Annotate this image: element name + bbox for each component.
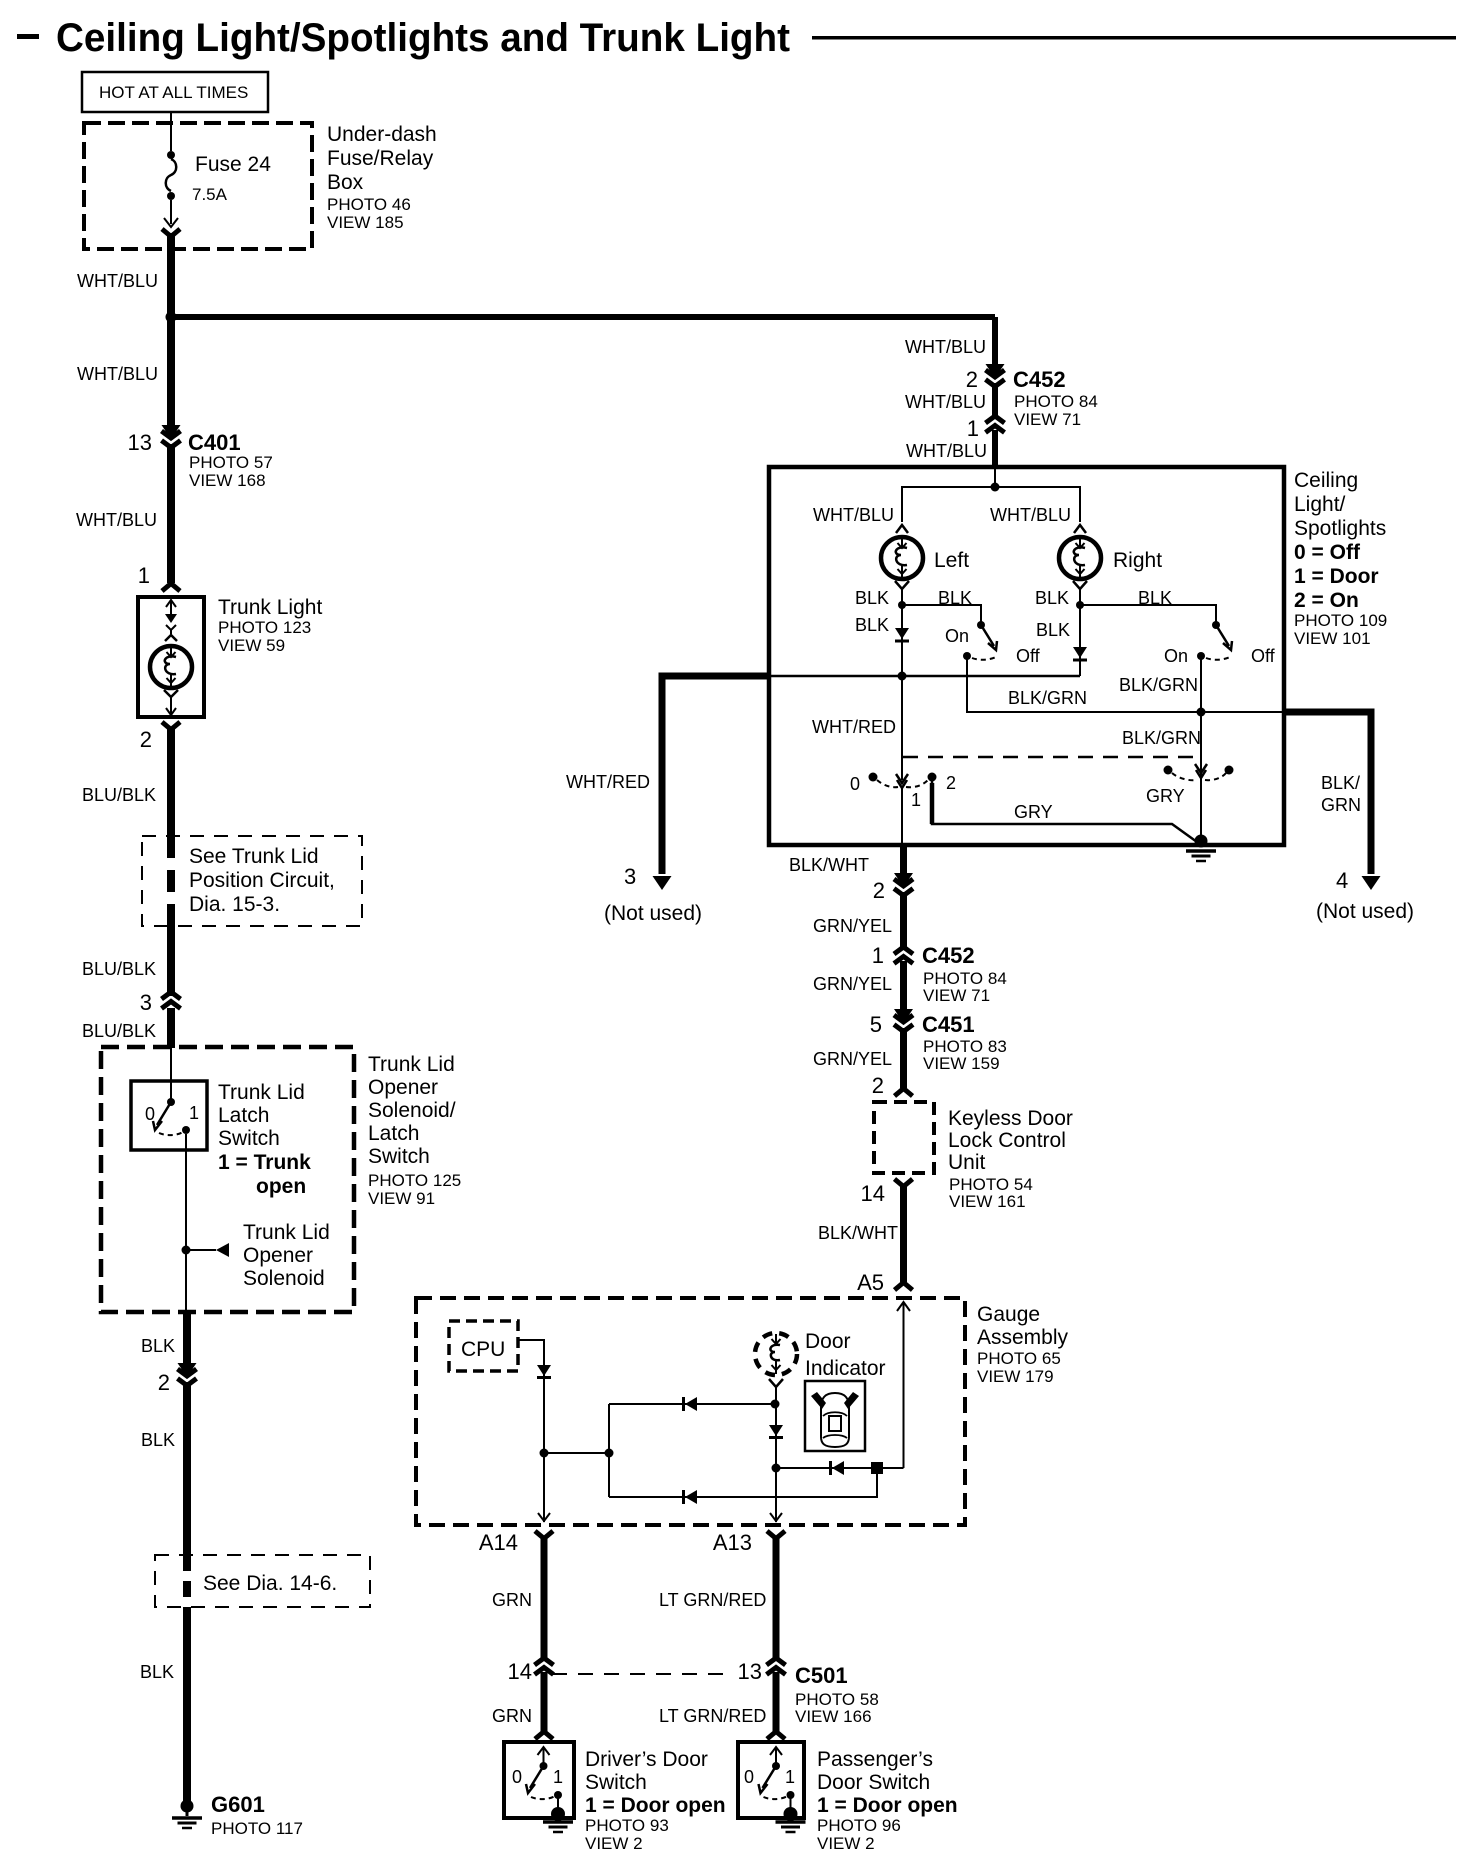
svg-text:PHOTO 96: PHOTO 96 xyxy=(817,1816,901,1835)
svg-text:Off: Off xyxy=(1251,646,1276,666)
right switch pivot xyxy=(1197,652,1205,660)
svg-text:13: 13 xyxy=(128,430,152,455)
fuse value label xyxy=(192,153,271,204)
node diode to rail xyxy=(898,672,907,681)
connector C501 chevron up (passenger side) xyxy=(767,1658,786,1675)
svg-text:Box: Box xyxy=(327,171,364,194)
wire BLU/BLK into solenoid box xyxy=(167,1008,175,1048)
connector chevron up xyxy=(986,416,1005,433)
trunk lid opener solenoid/latch switch box (dashed) xyxy=(101,1047,354,1312)
door indicator label xyxy=(805,1330,886,1380)
connector chevron down xyxy=(894,873,913,896)
HOT AT ALL TIMES box xyxy=(82,72,268,112)
connector C452 label xyxy=(1013,367,1098,429)
svg-text:WHT/BLU: WHT/BLU xyxy=(905,392,986,412)
door indicator lamp (dashed circle) xyxy=(755,1333,797,1375)
diode CPU branch xyxy=(537,1365,551,1378)
wire GRN/YEL to keyless unit xyxy=(900,1028,907,1088)
trunk light outlet chevron xyxy=(162,722,180,730)
connector chevron at fuse box outlet xyxy=(162,229,180,237)
wire right pivot down xyxy=(1200,658,1202,712)
CPU box (dashed) xyxy=(449,1321,518,1371)
passenger switch ground xyxy=(776,1807,806,1832)
solenoid box label xyxy=(368,1053,461,1208)
left ceiling lamp xyxy=(881,537,923,579)
svg-text:Keyless Door: Keyless Door xyxy=(948,1107,1073,1130)
svg-text:Spotlights: Spotlights xyxy=(1294,517,1386,540)
passenger switch position labels xyxy=(744,1767,795,1787)
svg-text:WHT/BLU: WHT/BLU xyxy=(990,505,1071,525)
svg-text:Unit: Unit xyxy=(948,1151,986,1174)
node indicator lower xyxy=(772,1464,781,1473)
svg-text:5: 5 xyxy=(870,1012,882,1037)
svg-text:GRN: GRN xyxy=(1321,795,1361,815)
svg-text:(Not used): (Not used) xyxy=(604,902,702,925)
connector C501 chevron up (driver side) xyxy=(535,1658,554,1675)
A14 exit arrow xyxy=(538,1513,550,1521)
connector C451 label xyxy=(922,1012,1007,1073)
svg-text:0: 0 xyxy=(145,1104,155,1124)
under-dash fuse/relay box (dashed) xyxy=(84,123,312,249)
trunk light bulb xyxy=(150,646,192,688)
connector C452 lower chevron up xyxy=(894,947,913,964)
svg-text:Trunk Lid: Trunk Lid xyxy=(218,1081,305,1104)
svg-text:VIEW 59: VIEW 59 xyxy=(218,636,285,655)
gauge assembly box (dashed) xyxy=(416,1298,965,1525)
wire top diode branch xyxy=(609,1403,775,1405)
svg-text:Door: Door xyxy=(805,1330,851,1353)
svg-text:VIEW 159: VIEW 159 xyxy=(923,1054,1000,1073)
driver's door switch box xyxy=(504,1742,574,1818)
svg-text:VIEW 2: VIEW 2 xyxy=(585,1834,643,1853)
trunk light bottom chevron and arrow xyxy=(164,690,178,715)
svg-text:VIEW 2: VIEW 2 xyxy=(817,1834,875,1853)
ground label G601 xyxy=(211,1792,303,1838)
ceiling light/spotlights box xyxy=(769,467,1284,845)
wire LT GRN/RED down from A13 xyxy=(773,1536,780,1658)
svg-text:LT GRN/RED: LT GRN/RED xyxy=(659,1706,766,1726)
wire GRY from contact 2 xyxy=(932,781,1197,842)
keyless door lock control unit box (dashed) xyxy=(874,1102,934,1173)
trunk light label xyxy=(218,596,322,655)
trunk light box xyxy=(138,597,204,717)
svg-text:1: 1 xyxy=(785,1767,795,1787)
svg-text:Left: Left xyxy=(934,549,969,572)
svg-text:C401: C401 xyxy=(188,430,241,455)
car indicator icon box xyxy=(805,1381,865,1451)
svg-text:BLK: BLK xyxy=(140,1662,174,1682)
svg-text:Switch: Switch xyxy=(368,1145,430,1168)
svg-text:Trunk Lid: Trunk Lid xyxy=(368,1053,455,1076)
label BLK/GRN two lines xyxy=(1321,773,1361,815)
note text xyxy=(189,845,335,916)
keyless unit wire end chevron xyxy=(895,1089,913,1097)
svg-text:1: 1 xyxy=(967,416,979,441)
wire CPU to A14 branch xyxy=(518,1340,544,1522)
wire A5 internal vertical xyxy=(903,1303,905,1468)
svg-text:Fuse/Relay: Fuse/Relay xyxy=(327,147,434,170)
diode top branch xyxy=(684,1397,698,1411)
svg-text:G601: G601 xyxy=(211,1792,265,1817)
svg-text:BLU/BLK: BLU/BLK xyxy=(82,785,156,805)
wire into latch switch xyxy=(170,1047,172,1081)
node indicator top xyxy=(771,1400,780,1409)
A5 entry arrow inside gauge box xyxy=(897,1302,910,1311)
svg-text:PHOTO 117: PHOTO 117 xyxy=(211,1819,303,1838)
ground G601 xyxy=(172,1800,202,1829)
node square junction xyxy=(871,1462,883,1474)
wire WHT/BLU down to C401 xyxy=(167,317,175,433)
svg-text:PHOTO 93: PHOTO 93 xyxy=(585,1816,669,1835)
wire BLK to see-dia box xyxy=(183,1382,191,1555)
svg-text:WHT/BLU: WHT/BLU xyxy=(813,505,894,525)
driver switch ground xyxy=(543,1807,573,1832)
svg-text:0: 0 xyxy=(744,1767,754,1787)
svg-text:BLK/GRN: BLK/GRN xyxy=(1119,675,1198,695)
svg-text:C452: C452 xyxy=(922,943,975,968)
svg-text:Solenoid/: Solenoid/ xyxy=(368,1099,456,1122)
driver switch wire end chevron xyxy=(535,1732,553,1740)
wire main feed horizontal to right branch xyxy=(171,314,995,320)
svg-text:BLK/: BLK/ xyxy=(1321,773,1360,793)
svg-text:WHT/BLU: WHT/BLU xyxy=(77,271,158,291)
svg-text:7.5A: 7.5A xyxy=(192,185,228,204)
svg-text:Fuse 24: Fuse 24 xyxy=(195,153,271,176)
trunk light internal circuit xyxy=(165,600,177,641)
node below right lamp xyxy=(1076,601,1084,609)
diode right lamp xyxy=(1073,647,1087,660)
wire BLK below solenoid box xyxy=(183,1312,191,1370)
gauge wire end chevron A5 xyxy=(895,1283,913,1291)
svg-text:Indicator: Indicator xyxy=(805,1357,886,1380)
wire cross link xyxy=(544,1452,609,1454)
A14 outlet chevron xyxy=(535,1531,553,1539)
wire middle vertical xyxy=(608,1404,610,1497)
left lamp bottom chevron xyxy=(895,581,909,605)
right lamp diode branch xyxy=(1079,605,1081,676)
node BLK/GRN junction xyxy=(1197,708,1206,717)
svg-text:Ceiling Light/Spotlights and T: Ceiling Light/Spotlights and Trunk Light xyxy=(56,16,790,60)
wire WHT/BLU between C452 halves xyxy=(992,383,998,419)
svg-text:BLU/BLK: BLU/BLK xyxy=(82,1021,156,1041)
svg-text:A13: A13 xyxy=(713,1530,752,1555)
A13 exit arrow xyxy=(770,1513,782,1521)
left selector wire with arrow xyxy=(896,676,908,788)
passenger switch internals xyxy=(759,1747,795,1812)
left switch dashed throw xyxy=(972,656,998,660)
wire GRN/YEL to C452 xyxy=(900,892,907,947)
keyless unit label xyxy=(948,1107,1073,1211)
svg-text:0: 0 xyxy=(850,774,860,794)
svg-text:Opener: Opener xyxy=(243,1244,313,1267)
svg-text:1: 1 xyxy=(138,563,150,588)
svg-text:3: 3 xyxy=(140,990,152,1015)
door indicator bottom chevron xyxy=(769,1379,783,1387)
connector chevron pair down xyxy=(178,1363,197,1386)
svg-text:4: 4 xyxy=(1336,868,1348,893)
svg-text:PHOTO 109: PHOTO 109 xyxy=(1294,611,1387,630)
svg-text:HOT AT ALL TIMES: HOT AT ALL TIMES xyxy=(99,83,248,102)
svg-text:VIEW 168: VIEW 168 xyxy=(189,471,266,490)
wire BLK to G601 xyxy=(183,1607,191,1803)
driver switch internals xyxy=(526,1747,562,1812)
svg-text:13: 13 xyxy=(738,1659,762,1684)
svg-text:1 = Trunk: 1 = Trunk xyxy=(218,1151,311,1174)
svg-text:WHT/RED: WHT/RED xyxy=(566,772,650,792)
connector C452 chevron pair (C401) xyxy=(162,425,181,448)
wire GRN to driver switch xyxy=(541,1672,548,1732)
svg-text:Driver’s Door: Driver’s Door xyxy=(585,1748,708,1771)
svg-text:Latch: Latch xyxy=(368,1122,419,1145)
svg-text:LT GRN/RED: LT GRN/RED xyxy=(659,1590,766,1610)
wire lamp feed rail xyxy=(902,487,1080,522)
latch switch position labels xyxy=(145,1103,199,1124)
svg-text:BLU/BLK: BLU/BLK xyxy=(82,959,156,979)
connector C401 label xyxy=(188,430,273,490)
wire entry into box xyxy=(994,467,996,487)
wire selector center to box bottom xyxy=(901,788,903,845)
right selector wire with arrow xyxy=(1195,712,1207,843)
driver switch label xyxy=(585,1748,726,1853)
latch switch internals xyxy=(153,1081,190,1135)
svg-text:Passenger’s: Passenger’s xyxy=(817,1748,933,1771)
right switch dashed throw xyxy=(1206,656,1232,660)
left selector dashed arcs xyxy=(877,780,928,787)
wire bottom diode branch xyxy=(609,1468,877,1497)
diode indicator branch xyxy=(769,1425,783,1438)
svg-text:PHOTO 84: PHOTO 84 xyxy=(1014,392,1098,411)
svg-text:BLK/GRN: BLK/GRN xyxy=(1122,728,1201,748)
wire BLK/WHT keyless to gauge xyxy=(900,1184,907,1282)
left switch contact xyxy=(977,621,985,629)
wire contact2 vertical thick part xyxy=(930,783,935,824)
label BLK x4 xyxy=(855,588,1172,608)
svg-text:Right: Right xyxy=(1113,549,1162,572)
wire GRN down from A14 xyxy=(541,1536,548,1658)
svg-text:Off: Off xyxy=(1016,646,1041,666)
svg-text:1 = Door: 1 = Door xyxy=(1294,565,1379,588)
wire to left On/Off switch xyxy=(902,605,981,622)
svg-text:BLK/WHT: BLK/WHT xyxy=(818,1223,898,1243)
svg-text:VIEW 185: VIEW 185 xyxy=(327,213,404,232)
svg-text:2: 2 xyxy=(873,878,885,903)
svg-text:On: On xyxy=(1164,646,1188,666)
right lamp wire end chevron xyxy=(1074,525,1086,533)
svg-text:PHOTO 65: PHOTO 65 xyxy=(977,1349,1061,1368)
svg-text:GRY: GRY xyxy=(1146,786,1185,806)
left lamp diode branch xyxy=(901,605,903,676)
svg-text:C452: C452 xyxy=(1013,367,1066,392)
diode left lamp xyxy=(895,628,909,641)
wire dashed through note box xyxy=(167,836,175,926)
svg-text:GRN/YEL: GRN/YEL xyxy=(813,974,892,994)
A13 outlet chevron xyxy=(767,1531,785,1539)
right switch blade xyxy=(1216,625,1232,650)
passenger switch wire end chevron xyxy=(767,1732,785,1740)
svg-text:1: 1 xyxy=(872,943,884,968)
node link xyxy=(605,1449,614,1458)
node solenoid tap xyxy=(182,1246,191,1255)
right ceiling lamp xyxy=(1059,537,1101,579)
svg-text:Trunk Light: Trunk Light xyxy=(218,596,322,619)
left switch pivot xyxy=(963,652,971,660)
node below left lamp xyxy=(898,601,906,609)
svg-text:VIEW 91: VIEW 91 xyxy=(368,1189,435,1208)
trunk light wire end chevron xyxy=(162,584,180,592)
wire BLU/BLK trunk light down xyxy=(167,727,175,837)
right selector contact right xyxy=(1225,766,1234,775)
svg-text:C501: C501 xyxy=(795,1663,848,1688)
svg-text:1: 1 xyxy=(911,790,921,810)
svg-text:2: 2 xyxy=(158,1370,170,1395)
svg-text:GRN/YEL: GRN/YEL xyxy=(813,1049,892,1069)
svg-text:VIEW 71: VIEW 71 xyxy=(1014,410,1081,429)
svg-text:BLK/GRN: BLK/GRN xyxy=(1008,688,1087,708)
solenoid tap stub with arrow xyxy=(186,1243,229,1257)
svg-text:GRY: GRY xyxy=(1014,802,1053,822)
svg-text:open: open xyxy=(256,1175,306,1198)
right selector contact left xyxy=(1164,766,1173,775)
mechanical link dashed line xyxy=(903,756,1198,759)
gauge assembly label xyxy=(977,1303,1069,1386)
svg-text:Lock Control: Lock Control xyxy=(948,1129,1066,1152)
svg-text:PHOTO 125: PHOTO 125 xyxy=(368,1171,461,1190)
left selector contact 2 xyxy=(928,773,937,782)
fuse F24 symbol xyxy=(164,112,178,227)
diode middle branch xyxy=(831,1461,845,1475)
see dia 14-6 box (dashed) xyxy=(155,1555,370,1607)
svg-text:1: 1 xyxy=(189,1103,199,1123)
svg-text:See Dia. 14-6.: See Dia. 14-6. xyxy=(203,1572,337,1595)
svg-text:Dia. 15-3.: Dia. 15-3. xyxy=(189,893,280,916)
wire pivot to BLK/GRN rail xyxy=(967,658,1282,712)
wire dashed through see-dia box xyxy=(183,1555,191,1607)
left lamp wire end chevron xyxy=(896,525,908,533)
svg-text:14: 14 xyxy=(508,1659,532,1684)
svg-text:VIEW 161: VIEW 161 xyxy=(949,1192,1026,1211)
passenger's door switch box xyxy=(738,1742,804,1818)
trunk lid opener solenoid label xyxy=(243,1221,330,1290)
svg-text:On: On xyxy=(945,626,969,646)
svg-text:A5: A5 xyxy=(857,1270,884,1295)
driver switch position labels xyxy=(512,1767,563,1787)
svg-text:GRN: GRN xyxy=(492,1590,532,1610)
svg-text:Opener: Opener xyxy=(368,1076,438,1099)
svg-text:VIEW 179: VIEW 179 xyxy=(977,1367,1054,1386)
diode bottom branch xyxy=(684,1490,698,1504)
connector C452 chevron down xyxy=(986,364,1005,387)
connector C452 label (lower) xyxy=(922,943,1007,1005)
title dash xyxy=(17,34,39,39)
wire WHT/BLU into ceiling light box xyxy=(992,430,998,467)
wire to right On/Off switch xyxy=(1080,605,1216,622)
svg-text:See Trunk Lid: See Trunk Lid xyxy=(189,845,319,868)
wire WHT/BLU right branch down to C452 xyxy=(992,317,998,372)
svg-text:Assembly: Assembly xyxy=(977,1326,1069,1349)
svg-text:WHT/BLU: WHT/BLU xyxy=(906,441,987,461)
wire latch to solenoid tap xyxy=(185,1134,187,1312)
wire square junction down xyxy=(876,1468,878,1497)
svg-text:VIEW 71: VIEW 71 xyxy=(923,986,990,1005)
latch switch label xyxy=(218,1081,311,1198)
svg-text:2: 2 xyxy=(946,773,956,793)
svg-text:Switch: Switch xyxy=(585,1771,647,1794)
see trunk lid position circuit box (dashed) xyxy=(142,836,362,926)
svg-text:BLK: BLK xyxy=(1036,620,1070,640)
exit wire WHT/RED (3 not used) xyxy=(653,676,770,890)
wire BLU/BLK below note box xyxy=(167,926,175,996)
exit wire BLK/GRN (4 not used) xyxy=(1284,712,1381,890)
keyless outlet chevron xyxy=(895,1179,913,1187)
svg-text:WHT/RED: WHT/RED xyxy=(812,717,896,737)
svg-text:Latch: Latch xyxy=(218,1104,269,1127)
svg-text:0 = Off: 0 = Off xyxy=(1294,541,1361,564)
left selector contact 0 xyxy=(869,773,878,782)
wire WHT/BLU C401 to trunk light xyxy=(167,444,175,583)
svg-text:Trunk Lid: Trunk Lid xyxy=(243,1221,330,1244)
svg-text:Solenoid: Solenoid xyxy=(243,1267,325,1290)
node split to two lamps xyxy=(991,483,1000,492)
trunk lid latch switch box xyxy=(131,1081,207,1150)
svg-text:VIEW 101: VIEW 101 xyxy=(1294,629,1371,648)
svg-text:0: 0 xyxy=(512,1767,522,1787)
node junction at main feed split xyxy=(166,312,177,323)
svg-text:Ceiling: Ceiling xyxy=(1294,469,1358,492)
svg-text:2: 2 xyxy=(966,367,978,392)
svg-text:Position Circuit,: Position Circuit, xyxy=(189,869,335,892)
svg-text:GRN: GRN xyxy=(492,1706,532,1726)
svg-text:Under-dash: Under-dash xyxy=(327,123,437,146)
ground inside ceiling box xyxy=(1186,835,1216,862)
svg-text:WHT/BLU: WHT/BLU xyxy=(905,337,986,357)
svg-text:BLK: BLK xyxy=(855,588,889,608)
svg-text:PHOTO 46: PHOTO 46 xyxy=(327,195,411,214)
wire WHT/BLU from fuse box down xyxy=(167,233,175,319)
ceiling light label xyxy=(1294,469,1387,648)
svg-text:2: 2 xyxy=(140,727,152,752)
svg-text:1 = Door open: 1 = Door open xyxy=(585,1794,726,1817)
svg-text:14: 14 xyxy=(861,1181,885,1206)
WHT/RED rail inside box xyxy=(771,675,1080,678)
svg-text:(Not used): (Not used) xyxy=(1316,900,1414,923)
wire indicator vertical xyxy=(775,1387,777,1522)
svg-text:VIEW 166: VIEW 166 xyxy=(795,1707,872,1726)
svg-text:BLK: BLK xyxy=(141,1336,175,1356)
svg-text:Switch: Switch xyxy=(218,1127,280,1150)
svg-text:C451: C451 xyxy=(922,1012,975,1037)
svg-text:CPU: CPU xyxy=(461,1338,505,1361)
svg-text:WHT/BLU: WHT/BLU xyxy=(77,364,158,384)
svg-text:PHOTO 123: PHOTO 123 xyxy=(218,618,311,637)
svg-text:BLK/WHT: BLK/WHT xyxy=(789,855,869,875)
svg-text:2: 2 xyxy=(872,1073,884,1098)
right switch contact xyxy=(1212,621,1220,629)
svg-text:WHT/BLU: WHT/BLU xyxy=(76,510,157,530)
fuse box label xyxy=(327,123,437,232)
title rule xyxy=(812,36,1456,40)
svg-text:PHOTO 57: PHOTO 57 xyxy=(189,453,273,472)
svg-text:2 = On: 2 = On xyxy=(1294,589,1359,612)
connector chevron pair up xyxy=(162,992,181,1009)
svg-text:Gauge: Gauge xyxy=(977,1303,1040,1326)
wire GRN/YEL between connectors xyxy=(900,961,907,1017)
svg-text:1 = Door open: 1 = Door open xyxy=(817,1794,958,1817)
svg-text:Light/: Light/ xyxy=(1294,493,1346,516)
svg-text:Door Switch: Door Switch xyxy=(817,1771,930,1794)
svg-text:BLK: BLK xyxy=(1035,588,1069,608)
svg-text:A14: A14 xyxy=(479,1530,518,1555)
left switch blade xyxy=(981,625,997,650)
